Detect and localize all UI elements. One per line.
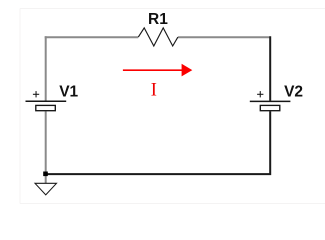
svg-text:R1: R1: [148, 11, 168, 28]
svg-text:V1: V1: [59, 83, 78, 100]
svg-text:I: I: [151, 80, 157, 100]
svg-text:V2: V2: [284, 84, 303, 101]
